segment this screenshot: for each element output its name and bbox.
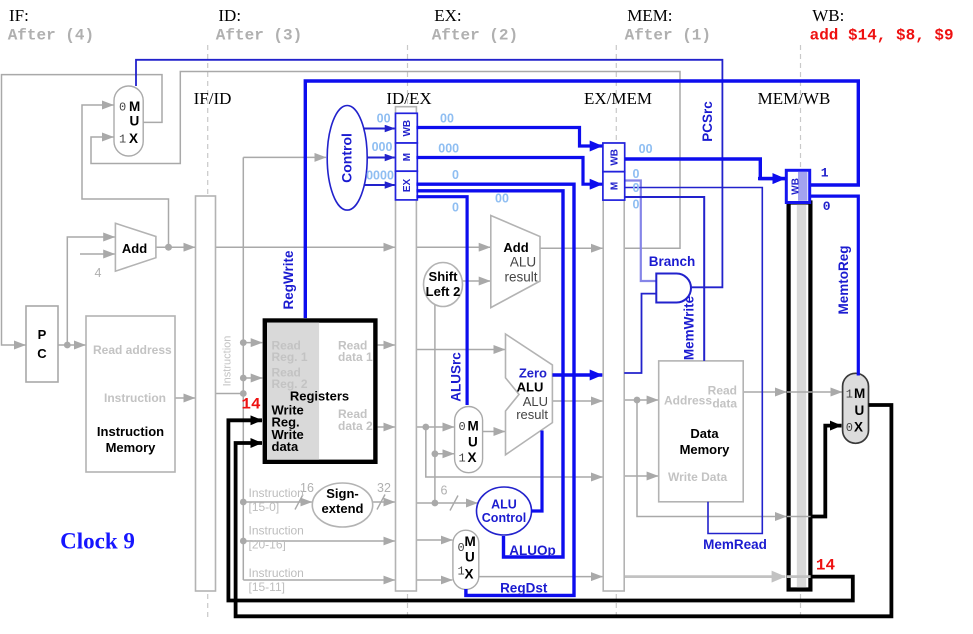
svg-text:After (3): After (3) [216,27,302,45]
svg-text:Instruction: Instruction [104,391,166,405]
wire control to M field [367,157,395,159]
svg-text:result: result [516,407,548,422]
wire Add output to IF/ID [156,246,195,248]
wire write back data mux output to registers [236,405,892,616]
mux MemtoReg (WB active) [843,373,869,443]
adder Add ALU result (branch) [491,216,540,308]
svg-text:MemWrite: MemWrite [682,295,697,360]
node immediate funct junction [432,500,439,507]
ID/EX WB field box [396,113,418,143]
svg-text:32: 32 [377,481,391,495]
node PC output junction [64,342,71,349]
wire opcode to Control [243,156,326,158]
pipeline register EX/MEM [584,89,652,591]
svg-text:00: 00 [639,142,653,156]
wire instruction 15-0 to sign extend [243,501,312,503]
svg-text:C: C [37,346,47,361]
wire PC mux output loop to PC input [2,75,163,345]
MEM/WB WB field box highlighted [786,170,809,202]
svg-text:RegWrite: RegWrite [281,250,296,310]
svg-text:ALU: ALU [510,255,536,270]
wire MEM/WB read data to MemtoReg mux input 1 [813,391,843,393]
wire M field ID/EX to EX/MEM [416,158,602,185]
svg-text:[15-11]: [15-11] [249,580,285,594]
wire MemtoReg from MEM/WB to mux [811,196,859,375]
wire IF/ID instruction output [216,393,244,395]
wire read register 2 [243,377,262,379]
svg-text:Control: Control [339,133,355,183]
svg-text:Registers: Registers [290,389,349,404]
wire read data 2 from ID/EX to ALUSrc mux [416,426,454,428]
svg-text:4: 4 [95,266,102,280]
wire ALUOp control [416,191,563,557]
wire read data through MEM/WB [787,391,812,393]
wire sign extend output to ID/EX [373,501,395,503]
svg-text:After (4): After (4) [8,27,94,45]
svg-text:U: U [855,403,865,418]
svg-text:Memory: Memory [106,440,157,455]
svg-text:Write Data: Write Data [668,470,727,484]
svg-text:14: 14 [816,557,836,575]
svg-text:000: 000 [438,142,459,156]
wire ALU result MEM/WB to mux input 0 [811,426,842,517]
svg-text:Memory: Memory [680,442,731,457]
wire PC+4 from ID/EX to branch Add [416,246,490,248]
svg-text:ALU: ALU [517,380,544,395]
wire instruction vertical bus [242,157,244,580]
svg-text:data: data [712,397,737,411]
svg-text:EX:: EX: [434,6,461,25]
svg-text:Add: Add [122,241,147,256]
wire instruction memory output to IF/ID [175,397,195,399]
svg-text:X: X [129,131,138,146]
wire WB field EX/MEM to MEM/WB [625,159,785,179]
svg-text:Add: Add [503,240,528,255]
svg-text:WB: WB [791,178,802,195]
EX/MEM WB field box [603,143,625,172]
node instruction read reg 2 junction [240,375,247,382]
control state digits [366,112,653,215]
wire MemRead to data memory [624,188,762,534]
svg-text:0: 0 [633,198,640,212]
svg-text:X: X [854,420,863,435]
wire PC to instruction memory read address [58,344,86,346]
mux PC source [114,86,143,156]
wire RegDst control [416,184,574,595]
wire instruction 15-11 to ID/EX [243,579,395,581]
wire PC+4 feedback to mux input 0 [82,105,169,247]
wire PC+4 through ID to ID/EX [216,246,395,248]
svg-text:Branch: Branch [649,254,696,269]
svg-text:00: 00 [495,192,509,206]
svg-text:0: 0 [823,199,831,214]
svg-text:Zero: Zero [519,366,547,381]
node PC+4 junction [165,244,172,251]
wire ALU control to ALU [531,431,542,512]
wire data memory read data to MEM/WB [743,391,786,393]
svg-text:MemRead: MemRead [703,537,767,552]
wire constant 4 into Add [80,253,115,255]
adder Add PC+4 [95,223,156,280]
stage divider ID/EX dashed [407,45,409,620]
ID/EX M field box [396,143,418,171]
node instruction read reg 1 junction [240,339,247,346]
svg-text:Instruction: Instruction [249,566,304,580]
svg-text:WB:: WB: [812,6,844,25]
svg-text:0: 0 [633,181,640,195]
wire control to EX field [364,184,395,186]
pipeline register IF/ID [194,89,232,591]
wire Zero flag to AND gate [624,294,656,373]
svg-text:ALUSrc: ALUSrc [449,352,464,402]
svg-text:0: 0 [459,420,466,434]
wire branch target from EX/MEM to mux input 1 [91,72,680,249]
svg-text:WB: WB [609,149,620,166]
svg-text:U: U [468,435,478,450]
shift left 2 [424,263,463,307]
svg-text:extend: extend [322,501,364,516]
svg-text:MemtoReg: MemtoReg [836,245,851,314]
svg-text:00: 00 [440,112,454,126]
svg-text:0: 0 [119,101,126,115]
svg-text:Instruction: Instruction [222,336,234,387]
svg-text:M: M [402,153,413,161]
stage divider MEM/WB dashed [800,45,802,620]
svg-text:After (1): After (1) [625,27,711,45]
wire read data 2 branch to EX/MEM write data [426,427,603,477]
wire MemWrite to data memory [624,197,704,361]
svg-text:M: M [854,386,865,401]
control unit [327,106,367,211]
svg-text:ID/EX: ID/EX [386,89,431,108]
mux RegDst [453,530,479,589]
svg-text:Left 2: Left 2 [426,284,461,299]
svg-text:0: 0 [452,168,459,182]
svg-text:WB: WB [402,120,413,137]
svg-text:00: 00 [377,112,391,126]
wire immediate riser to shift left 2 [434,304,436,504]
svg-text:data: data [272,439,300,454]
svg-text:1: 1 [821,166,829,181]
svg-text:X: X [465,567,474,582]
svg-text:Data: Data [690,426,719,441]
wire RegWrite from MEM/WB to registers [305,81,858,318]
svg-text:EX: EX [402,179,413,193]
wire ALU result to MEM/WB [637,400,787,517]
wire register number through MEM/WB [787,575,812,578]
svg-text:X: X [468,450,477,465]
svg-text:0: 0 [633,167,640,181]
instruction memory [86,316,175,472]
node instruction 20-16 junction [240,538,247,545]
svg-text:[20-16]: [20-16] [249,538,286,552]
stage divider IF/ID dashed [207,45,209,620]
svg-text:MEM:: MEM: [627,6,672,25]
svg-text:M: M [609,182,620,190]
svg-text:0: 0 [452,201,459,215]
svg-text:Address: Address [664,394,712,408]
wire WB arrow into MEM/WB [758,177,785,180]
svg-text:[15-0]: [15-0] [249,500,280,514]
label instruction 15-0 [249,486,304,594]
svg-text:P: P [38,327,47,342]
svg-text:Instruction: Instruction [97,424,164,439]
svg-text:IF:: IF: [9,6,29,25]
svg-text:Read address: Read address [93,343,172,357]
wire ALUSrc mux output to ALU [483,431,505,433]
svg-text:Instruction: Instruction [249,486,304,500]
svg-text:Sign-: Sign- [326,486,359,501]
svg-text:result: result [504,270,537,285]
svg-text:U: U [465,550,475,565]
node instruction bus junction [240,390,247,397]
wire RegDst mux output to EX/MEM [479,576,603,578]
wire ALU result through MEM/WB [787,516,812,518]
wire read data 2 to ID/EX [378,426,395,428]
wire sign extended immediate to ALU control [416,502,477,504]
svg-text:Shift: Shift [429,269,459,284]
wire Branch control to AND gate [624,181,656,282]
svg-text:Control: Control [482,511,526,525]
svg-text:Reg. 1: Reg. 1 [272,350,308,364]
wire control to WB field [364,128,395,130]
wire read data 1 to ID/EX [378,344,395,346]
registers block [265,321,376,462]
pipeline register MEM/WB highlighted [758,89,831,590]
PC [26,306,58,382]
node read data 2 junction [422,424,429,431]
svg-text:Instruction: Instruction [249,524,304,538]
svg-text:6: 6 [441,484,448,498]
pipeline register ID/EX [386,89,431,591]
wire instruction 15-11 to RegDst mux [416,579,452,581]
svg-text:U: U [130,114,140,129]
wire WB field ID/EX to EX/MEM [416,128,602,147]
wire write register number 14 path [228,420,852,600]
AND gate branch [656,274,691,303]
svg-text:PCSrc: PCSrc [700,101,715,142]
svg-text:IF/ID: IF/ID [194,89,232,108]
wire branch Add output to EX/MEM [540,247,603,249]
svg-text:Read: Read [708,384,737,398]
node instruction 15-0 junction [240,499,247,506]
wire write register number EX/MEM to MEM/WB [624,575,785,578]
svg-text:14: 14 [241,396,261,414]
bus width slash 32 [377,495,385,510]
svg-text:M: M [129,99,140,114]
data memory [659,361,744,502]
wire PCSrc from AND gate to PC mux [136,60,722,287]
svg-text:Clock 9: Clock 9 [60,529,135,554]
wire read register 1 [243,342,262,344]
svg-text:data 1: data 1 [338,350,373,364]
svg-text:0000: 0000 [366,169,394,183]
ALU control unit [477,487,532,535]
svg-text:000: 000 [372,140,393,154]
svg-text:After (2): After (2) [432,27,518,45]
wire PC to Add [67,237,115,345]
wire instruction 20-16 to RegDst mux [416,539,452,541]
svg-text:ALUOp: ALUOp [509,543,556,558]
wire read data 1 from ID/EX to ALU [416,349,505,351]
svg-text:1: 1 [846,388,853,402]
ID/EX EX field box [396,171,418,200]
wire instruction 20-16 to ID/EX [243,540,395,542]
wire ALU result to EX/MEM [552,400,602,402]
EX/MEM M field box [603,172,625,200]
svg-text:0: 0 [846,421,853,435]
svg-text:data 2: data 2 [338,419,373,433]
wire ALUSrc control [416,197,467,405]
svg-text:MEM/WB: MEM/WB [758,89,831,108]
svg-text:EX/MEM: EX/MEM [584,89,652,108]
node immediate mux junction [432,450,439,457]
bus width slash 6 [450,496,458,511]
svg-text:1: 1 [119,133,126,147]
svg-text:M: M [465,534,476,549]
node ALU result junction [634,397,641,404]
sign extend [300,481,447,527]
ALU [506,334,553,455]
svg-text:1: 1 [459,452,466,466]
bus width slash 16 [295,495,303,510]
svg-text:ALU: ALU [491,498,517,512]
wire shift left 2 to branch Add [462,280,491,282]
wire EX/MEM ALU result to data memory address [624,399,658,401]
svg-text:ID:: ID: [218,6,241,25]
svg-text:M: M [468,419,479,434]
mux ALUSrc [455,407,483,473]
wire immediate to ALUSrc mux input 1 [435,453,454,455]
svg-text:RegDst: RegDst [500,581,548,596]
wire EX/MEM write data to data memory [624,475,658,477]
svg-text:add $14, $8, $9: add $14, $8, $9 [810,27,954,45]
wire Zero to EX/MEM [552,373,602,376]
stage divider EX/MEM dashed [615,45,617,620]
